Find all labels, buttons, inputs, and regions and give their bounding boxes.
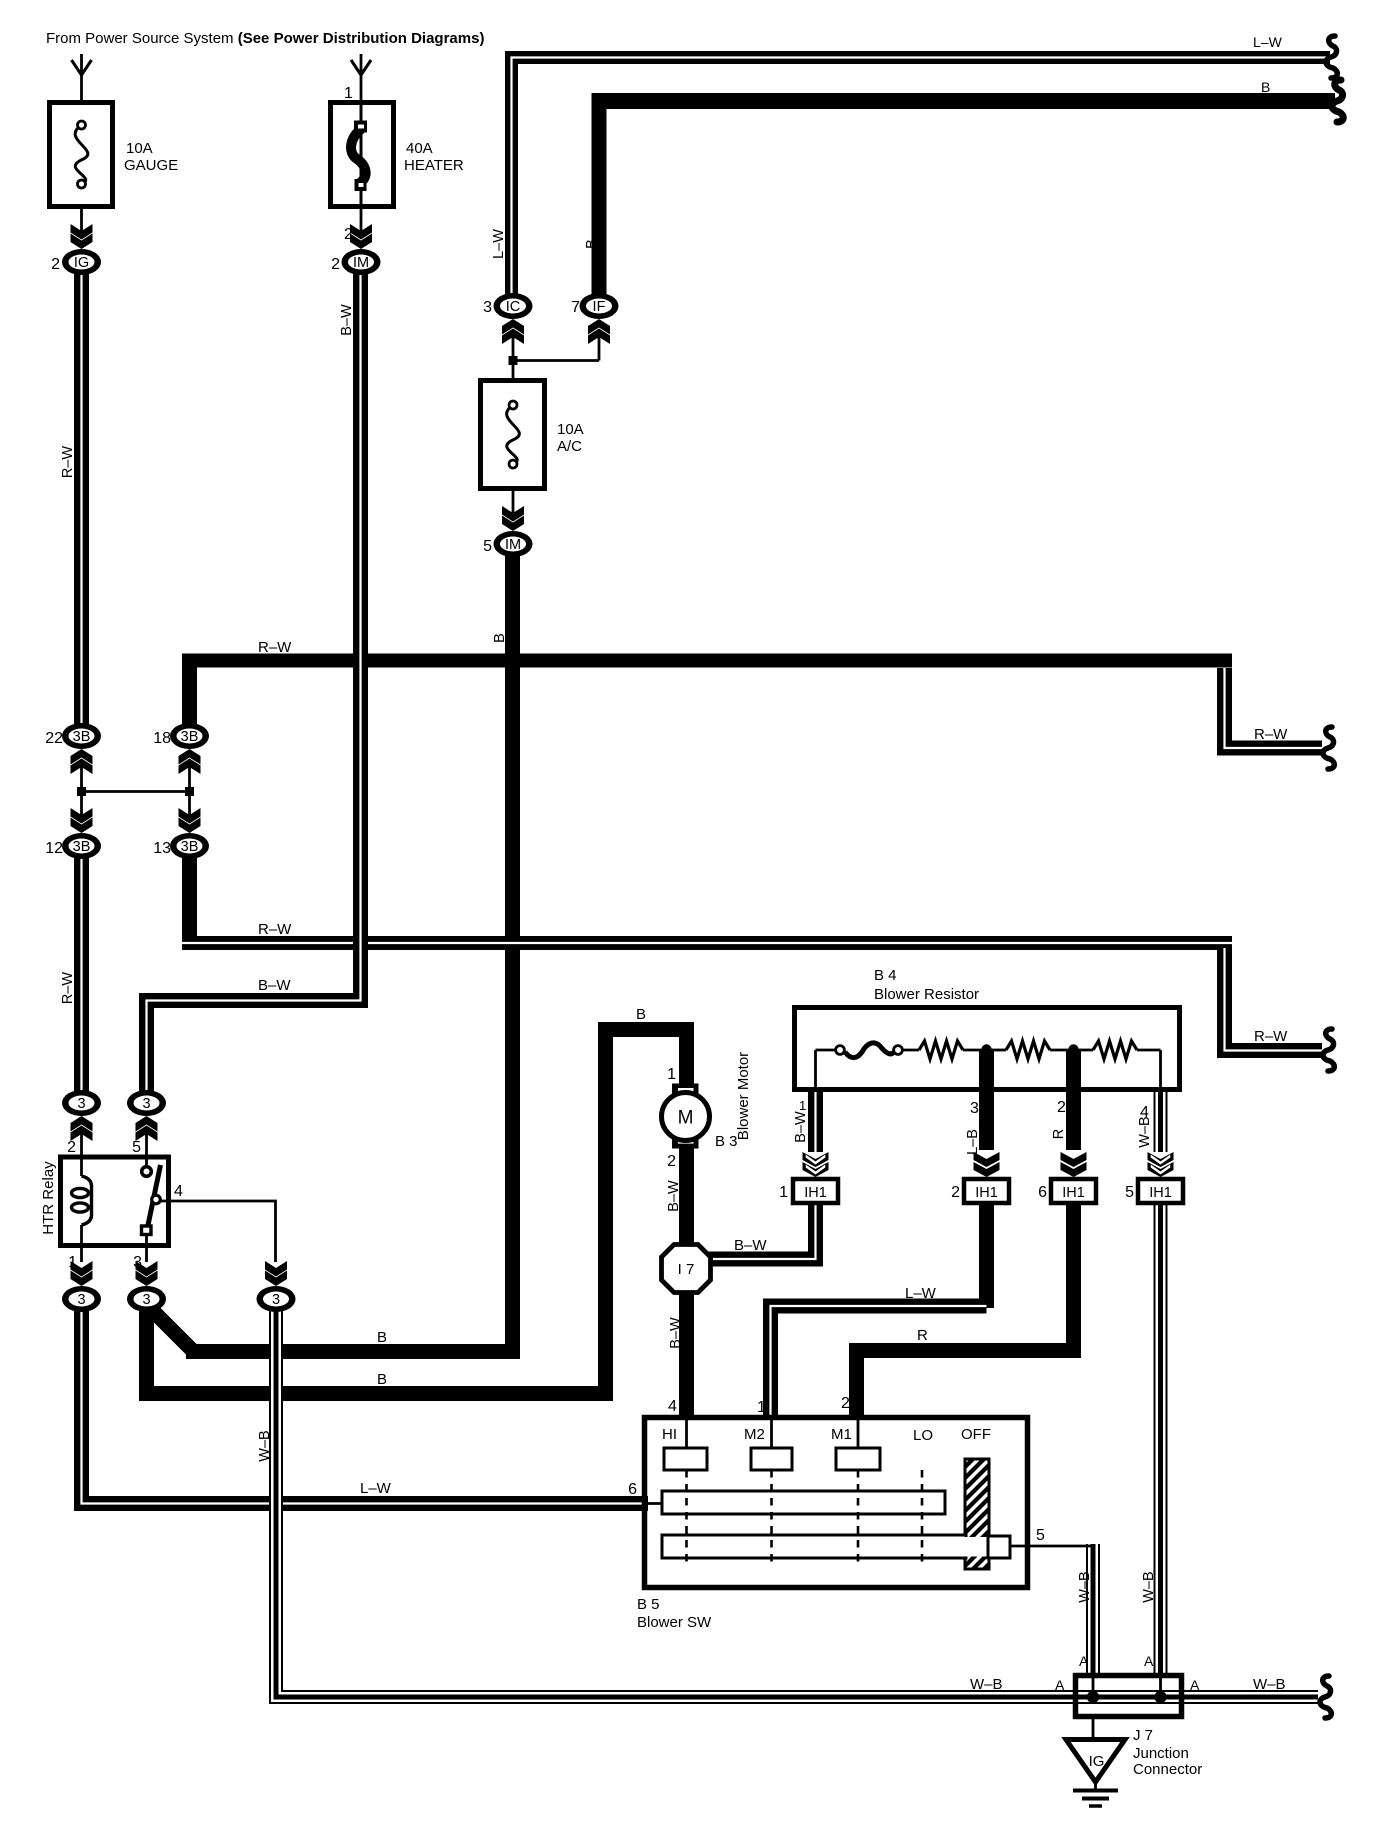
svg-text:R–W: R–W [1254,1028,1288,1045]
continuation mark B [1332,80,1343,122]
HTR relay switch contact bottom [142,1226,152,1235]
IH1 pin 5 label [1125,1184,1134,1201]
ground stem [1094,1782,1097,1789]
wire B-W from connector IH1(1) to connector I7 [705,1200,816,1259]
svg-text:B–W: B–W [666,1180,682,1212]
wire label B-W motor-I7 [666,1180,682,1212]
switch pin 5 label [1036,1527,1045,1544]
wire fuse GAUGE output to connector IG [80,209,83,236]
svg-text:M: M [678,1108,694,1129]
pin 18 label [153,730,171,747]
junction dot J7 left [1087,1691,1099,1703]
pin 1 of fuse F2 [344,85,353,102]
svg-text:A: A [1144,1653,1154,1669]
switch label OFF [961,1426,991,1443]
svg-text:R: R [1051,1129,1067,1139]
svg-text:B–W: B–W [339,304,355,336]
wire junction to fuse 10A A/C [512,361,515,382]
svg-text:R–W: R–W [1254,726,1288,743]
fuse F3 10A A/C box [481,381,545,489]
HTR relay coil [72,1155,92,1247]
switch pin 4 label [668,1398,677,1415]
svg-text:M2: M2 [744,1426,765,1443]
wire label B vertical at IF [584,239,600,249]
wire label B-W resistor [793,1111,809,1143]
svg-text:IM: IM [505,537,521,553]
connector IC pin 3 [494,293,533,319]
svg-text:R–W: R–W [60,972,76,1005]
svg-text:3: 3 [77,1096,85,1112]
arrow into connector 3B(22) [71,749,93,774]
arrow into connector IH1(2) [974,1152,1000,1177]
wire L-W from HTR relay pin 1 to blower switch pin 6 [82,1308,649,1504]
wire fuse A/C output to connector IM(5) [512,489,515,516]
svg-text:3: 3 [272,1292,280,1308]
wire R-W bus 1 horizontal [182,654,1232,668]
wire power feed into fuse 40A HEATER [360,54,363,100]
svg-text:3: 3 [483,299,492,316]
HTR relay box [61,1157,169,1246]
svg-text:3: 3 [142,1096,150,1112]
blower switch M1 terminal stem [857,1420,860,1448]
label B at motor feed [636,1006,646,1023]
label fuse F1 10A GAUGE [124,140,178,174]
wire B feed horizontal from power source (top right) [599,93,1335,109]
svg-text:W–B: W–B [257,1430,273,1461]
svg-text:Connector: Connector [1133,1761,1202,1778]
fuse F1 10A GAUGE box [50,103,113,207]
blower switch dashed line LO [921,1470,924,1566]
connector 3B pin 22 [62,723,101,749]
blower switch OFF hatched slider [960,1438,994,1604]
blower resistor fusible link [816,1043,903,1058]
arrow into connector 3B(12) [71,808,93,833]
title text [46,30,484,47]
wire inside J7 right [1159,1673,1162,1697]
fuse F3 element [507,401,520,468]
relay pin 1 label [68,1254,77,1271]
svg-text:L–W: L–W [491,229,507,259]
fuse F1 element [75,121,88,188]
blower resistor element 2 [991,1041,1069,1059]
connector 3B pin 13 [170,833,209,859]
blower motor top terminal [672,1084,699,1097]
pin 2 of fuse F2 [344,226,353,243]
blower switch dashed line HI [685,1470,688,1566]
junction dot J7 right [1154,1691,1166,1703]
wire label W-B relay4 [257,1430,273,1461]
svg-text:B 5: B 5 [637,1596,660,1613]
HTR relay switch contact top [142,1167,152,1177]
wire W-B from HTR relay pin 4 connector down and across to junction J7 [276,1308,1318,1697]
wire label W-B IH15 [1141,1571,1157,1602]
svg-text:Blower Motor: Blower Motor [735,1052,752,1140]
svg-text:B 4: B 4 [874,967,897,984]
blower resistor element 1 [902,1041,982,1059]
arrow into connector IH1(6) [1061,1152,1087,1177]
wire B from fuse IM(5) vertical down to node B1 [505,555,520,1351]
wire L-B from connector IH1(2) down [979,1200,994,1308]
svg-text:B: B [377,1329,387,1346]
svg-text:2: 2 [67,1139,76,1156]
svg-text:IC: IC [506,299,521,315]
svg-text:13: 13 [153,840,171,857]
resistor pin 3 label [970,1100,979,1117]
svg-text:7: 7 [571,299,580,316]
wire junction row to connector 3B(13) [188,792,191,819]
wire L-B from blower resistor pin 3 to connector IH1(2) [979,1049,994,1150]
svg-text:18: 18 [153,730,171,747]
connector I7 octagon [662,1245,711,1293]
HTR relay switch contact mid (pin4) [152,1195,161,1204]
wire fuse HEATER output to connector IM [360,209,363,236]
svg-text:3B: 3B [73,729,91,745]
junction dot left 3B row [77,787,86,796]
continuation mark L-W [1326,36,1337,78]
wire connector 3 to HTR relay pin 2 [80,1134,83,1158]
svg-text:GAUGE: GAUGE [124,157,178,174]
svg-text:2: 2 [951,1184,960,1201]
wire connector 3 to HTR relay pin 5 [145,1134,148,1168]
svg-text:A: A [1079,1653,1089,1669]
continuation mark W-B [1320,1676,1331,1718]
svg-text:10A: 10A [126,140,153,157]
wire W-B from blower switch pin 5 down to junction J7 [1086,1544,1100,1676]
blower switch selector bar 1 [662,1491,945,1514]
svg-text:1: 1 [68,1254,77,1271]
svg-text:B–W: B–W [668,1317,684,1349]
switch pin 6 label [628,1481,637,1498]
svg-text:5: 5 [132,1139,141,1156]
label R to M1 [917,1327,928,1344]
svg-text:W–B: W–B [1077,1571,1093,1602]
wire R-W from connector 3B(12) down to HTR relay pin 2 [74,856,89,1093]
svg-text:2: 2 [841,1395,850,1412]
wire junction row to connector 3B(12) [80,792,83,819]
svg-text:L–W: L–W [360,1480,392,1497]
svg-text:A: A [1055,1677,1065,1693]
wire B1 from relay output to A/C feed line [148,1306,520,1352]
svg-text:IH1: IH1 [975,1185,998,1201]
connector 3 at relay pin 1 [62,1286,101,1312]
resistor pin 1 label [799,1098,806,1113]
pin 2 label at IM [331,256,340,273]
svg-text:6: 6 [628,1481,637,1498]
pin 7 label at IF [571,299,580,316]
svg-text:10A: 10A [557,421,584,438]
svg-text:J 7: J 7 [1133,1727,1153,1744]
blower resistor box [795,1008,1180,1090]
blower switch HI terminal [664,1448,707,1470]
relay pin 3 label [133,1254,142,1271]
switch label M2 [744,1426,765,1443]
motor pin 2 label [667,1153,676,1170]
wire label W-B switch5 [1077,1571,1093,1602]
svg-text:2: 2 [344,226,353,243]
label HTR Relay [40,1161,57,1235]
junction connector J7 box [1076,1676,1182,1717]
svg-text:LO: LO [913,1427,933,1444]
label B4 Blower Resistor [874,967,979,1003]
arrow into connector IH1(1) [803,1152,829,1177]
wire segment thick leg from connector 3B(13) down to R-W bus 2 [182,856,197,943]
wire R-W bus 2 right tail to continuation [1225,948,1323,1051]
arrow into connector 3B(18) [179,749,201,774]
relay pin 2 label [67,1139,76,1156]
label A right of J7 [1190,1677,1200,1693]
label B at B1 [377,1329,387,1346]
svg-text:From Power Source System (See: From Power Source System (See Power Dist… [46,30,484,47]
switch pin 2 label [841,1395,850,1412]
svg-text:A/C: A/C [557,438,582,455]
svg-text:4: 4 [174,1183,183,1200]
pin 12 label [45,840,63,857]
connector IH1 pin 2 [964,1179,1009,1203]
svg-text:B: B [584,239,600,249]
svg-text:5: 5 [1036,1527,1045,1544]
arrow into connector 3 (relay pin3 bottom) [136,1261,158,1286]
wire power feed into fuse 10A GAUGE [80,54,83,100]
connector 3 at relay pin 5 [127,1090,166,1116]
arrow into connector IM [350,224,372,249]
svg-text:1: 1 [757,1399,766,1416]
wire label B-W vertical at IM [339,304,355,336]
switch label LO [913,1427,933,1444]
connector IH1 pin 6 [1051,1179,1096,1203]
junction node dot below IC [509,356,518,365]
label L-W top [1253,34,1283,50]
label J7 Junction Connector [1133,1727,1202,1778]
blower switch M2 terminal [751,1448,792,1470]
svg-text:1: 1 [667,1066,676,1083]
junction dot right 3B row [185,787,194,796]
svg-text:Junction: Junction [1133,1745,1189,1762]
blower resistor internal wire to pin 4 [1159,1050,1162,1090]
svg-text:IG: IG [74,255,89,271]
svg-text:B–W: B–W [734,1237,767,1254]
svg-text:L–B: L–B [965,1129,981,1155]
blower resistor internal wire to pin 1 [814,1050,817,1090]
svg-text:W–B: W–B [1253,1676,1286,1693]
connector IH1 pin 1 [793,1179,838,1203]
svg-text:IF: IF [593,299,606,315]
svg-text:W–B: W–B [970,1676,1003,1693]
continuation mark R-W bus1 [1323,727,1334,769]
switch label M1 [831,1426,852,1443]
blower resistor element 3 [1078,1041,1161,1059]
arrow into connector 3 (relay pin4) [265,1261,287,1286]
blower switch box [645,1418,1028,1588]
svg-text:L–W: L–W [905,1285,937,1302]
blower switch selector bar 2 [662,1535,1010,1558]
svg-text:R–W: R–W [258,639,292,656]
wire J7 to ground [1092,1717,1095,1739]
wire label L-W vertical [491,229,507,259]
label B3 Blower Motor [715,1052,752,1150]
svg-text:3: 3 [970,1100,979,1117]
label B5 Blower SW [637,1596,712,1631]
wire R-W bus 2 horizontal [182,936,1232,950]
svg-text:IH1: IH1 [804,1185,827,1201]
fuse F2 element [351,102,367,207]
svg-text:HTR Relay: HTR Relay [40,1161,57,1235]
label R-W bus2 [258,921,292,938]
arrow into connector 3B(13) [179,808,201,833]
svg-text:3: 3 [77,1292,85,1308]
svg-text:A: A [1190,1677,1200,1693]
svg-text:IH1: IH1 [1149,1185,1172,1201]
label A left wire [1079,1653,1089,1669]
svg-text:I 7: I 7 [678,1261,695,1278]
svg-text:B: B [1261,79,1270,95]
svg-text:3B: 3B [181,839,199,855]
label R-W tail1 [1254,726,1288,743]
svg-text:IG: IG [1089,1753,1105,1770]
wire R-W from fuse IG(2) down to connector 3B(22) [74,272,89,726]
wire B-W from connector I7 down to blower switch HI [679,1286,694,1418]
pin 22 label [45,730,63,747]
wire connector 3B(18) to junction row [188,762,191,792]
wire W-B from connector IH1(5) down to junction J7 [1154,1200,1168,1676]
svg-text:IM: IM [353,255,369,271]
wire L-W from connector IH1(2) to blower switch M2 [771,1306,987,1418]
svg-text:B: B [377,1371,387,1388]
pin 5 label at IM [483,538,492,555]
svg-text:12: 12 [45,840,63,857]
blower switch dashed line M1 [857,1470,860,1566]
wire connector IF to junction node [598,336,601,361]
arrow into connector IH1(5) [1148,1152,1174,1177]
wire B-W from blower motor to connector I7 [679,1148,694,1250]
continuation mark R-W bus2 [1323,1029,1334,1071]
switch pin 1 label [757,1399,766,1416]
arrow into connector IC [502,319,524,344]
svg-text:Blower Resistor: Blower Resistor [874,986,979,1003]
arrow into connector IM(5) [502,506,524,531]
label B-W at I7 link [734,1237,767,1254]
svg-text:HEATER: HEATER [404,157,464,174]
label fuse F2 40A HEATER [404,140,464,174]
IH1 pin 1 label [779,1184,788,1201]
blower switch HI terminal stem [685,1420,688,1448]
resistor pin 4 label [1140,1104,1149,1121]
wire W-B from blower resistor pin 4 to connector IH1(5) [1154,1091,1168,1152]
blower switch dashed line M2 [770,1470,773,1566]
blower switch pin 6 internal link [645,1502,663,1505]
ground bars [1073,1791,1118,1807]
svg-text:2: 2 [51,256,60,273]
svg-text:3B: 3B [181,729,199,745]
wire label R-W left lower [60,972,76,1005]
arrow into connector 3 (relay pin1 bottom) [71,1261,93,1286]
arrow into connector IF [588,319,610,344]
wire L-W feed horizontal from power source to connector IC [512,58,1331,297]
svg-text:2: 2 [667,1153,676,1170]
wire R from connector IH1(6) to blower switch M1 [857,1200,1074,1418]
wire junction node link IC-IF [513,359,599,362]
pin 3 label at IC [483,299,492,316]
label W-B right [1253,1676,1286,1693]
resistor pin 2 label [1057,1099,1066,1116]
svg-text:R: R [917,1327,928,1344]
wire segment thick leg from R-W bus down to connector 3B(18) [182,660,197,726]
svg-text:HI: HI [662,1426,677,1443]
relay pin 4 label [174,1183,183,1200]
svg-text:22: 22 [45,730,63,747]
switch label HI [662,1426,677,1443]
svg-text:3: 3 [133,1254,142,1271]
svg-text:B–W: B–W [258,977,291,994]
wire label B below IM5 [492,633,508,643]
wire label W-B resistor [1137,1116,1153,1147]
svg-text:L–W: L–W [1253,34,1283,50]
connector 3 at relay pin 3 [127,1286,166,1312]
label B top [1261,79,1270,95]
wire R-W bus 1 right tail to continuation [1225,668,1323,748]
svg-text:5: 5 [1125,1184,1134,1201]
wire connector 3B(22) to junction row [80,762,83,792]
wire label R-W left upper [60,446,76,479]
label fuse F3 10A A/C [557,421,584,455]
svg-text:3: 3 [142,1292,150,1308]
svg-text:W–B: W–B [1137,1116,1153,1147]
pin 2 label at IG [51,256,60,273]
wire blower switch pin 5 output [1008,1545,1093,1548]
connector 3 at relay pin 2 [62,1090,101,1116]
connector 3B pin 12 [62,833,101,859]
label B-W horizontal [258,977,291,994]
svg-text:5: 5 [483,538,492,555]
IH1 pin 2 label [951,1184,960,1201]
wire R from blower resistor pin 2 to connector IH1(6) [1066,1049,1081,1150]
wire label R resistor [1051,1129,1067,1139]
blower resistor junction dot pin 2 [1068,1044,1078,1054]
label R-W bus1 [258,639,292,656]
open arrow on feed to fuse 10A GAUGE [72,60,92,75]
wire inside J7 left [1092,1673,1095,1697]
wire HTR relay pin 3 to connector 3 [145,1236,148,1262]
label R-W tail2 [1254,1028,1288,1045]
IH1 pin 6 label [1038,1184,1047,1201]
svg-text:Blower SW: Blower SW [637,1614,712,1631]
ground IG triangle [1066,1740,1125,1783]
label A right wire [1144,1653,1154,1669]
blower motor bottom terminal [672,1136,699,1149]
wire junction row link [82,790,190,793]
svg-text:3B: 3B [73,839,91,855]
HTR relay switch blade [147,1165,161,1230]
motor pin 1 label [667,1066,676,1083]
wire B-W from fuse IM(2) down and over to HTR relay pin 5 [147,272,361,1093]
svg-text:B: B [636,1006,646,1023]
svg-text:40A: 40A [406,140,433,157]
wire B vertical drop to connector IF [592,93,607,294]
svg-text:1: 1 [779,1184,788,1201]
arrow into connector 3 (relay pin5 top) [136,1116,158,1141]
svg-text:IH1: IH1 [1062,1185,1085,1201]
connector IF pin 7 [580,293,619,319]
wire connector IC to junction node [512,336,515,361]
blower switch M2 terminal stem [770,1420,773,1448]
wire label B-W I7-switch [668,1317,684,1349]
wire B-W from blower resistor pin 1 to connector IH1(1) [808,1091,823,1152]
label W-B left [970,1676,1003,1693]
connector IM pin 5 [494,531,533,557]
blower resistor junction dot pin 3 [981,1044,991,1054]
connector IM pin 2 [342,249,381,275]
pin 13 label [153,840,171,857]
svg-text:R–W: R–W [60,446,76,479]
